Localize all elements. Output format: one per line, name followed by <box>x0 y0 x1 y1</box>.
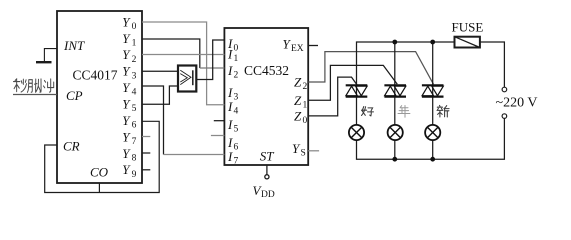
svg-text:CC4017: CC4017 <box>73 68 118 83</box>
svg-text:4: 4 <box>132 88 137 98</box>
svg-text:0: 0 <box>234 43 239 53</box>
svg-text:Y: Y <box>122 47 131 62</box>
svg-text:I: I <box>227 149 233 164</box>
svg-text:I: I <box>227 47 233 62</box>
svg-text:1: 1 <box>234 54 239 64</box>
svg-text:INT: INT <box>63 38 85 53</box>
svg-text:Y: Y <box>122 80 131 95</box>
svg-text:Z: Z <box>294 108 302 123</box>
svg-text:4: 4 <box>234 107 239 117</box>
svg-text:I: I <box>227 85 233 100</box>
svg-text:DD: DD <box>261 190 275 200</box>
svg-text:Y: Y <box>122 97 131 112</box>
svg-text:6: 6 <box>234 143 239 153</box>
svg-text:EX: EX <box>291 44 304 54</box>
svg-text:1: 1 <box>303 100 308 110</box>
svg-text:FUSE: FUSE <box>452 20 484 35</box>
svg-text:I: I <box>227 99 233 114</box>
svg-text:2: 2 <box>132 55 137 65</box>
svg-text:ST: ST <box>260 149 275 164</box>
svg-text:Y: Y <box>122 162 131 177</box>
svg-text:Y: Y <box>122 64 131 79</box>
svg-text:2: 2 <box>303 82 308 92</box>
svg-text:3: 3 <box>234 93 239 103</box>
svg-text:3: 3 <box>132 71 137 81</box>
svg-text:1: 1 <box>132 38 137 48</box>
svg-text:Y: Y <box>122 129 131 144</box>
svg-text:S: S <box>301 149 306 159</box>
svg-text:0: 0 <box>132 22 137 32</box>
svg-text:Y: Y <box>122 146 131 161</box>
svg-text:Y: Y <box>122 31 131 46</box>
svg-text:CC4532: CC4532 <box>244 63 289 78</box>
svg-text:~220 V: ~220 V <box>496 95 538 110</box>
svg-text:7: 7 <box>132 137 137 147</box>
svg-text:2: 2 <box>234 71 239 81</box>
svg-text:6: 6 <box>132 121 137 131</box>
svg-text:I: I <box>227 63 233 78</box>
svg-text:Y: Y <box>122 14 131 29</box>
svg-text:5: 5 <box>132 104 137 114</box>
svg-text:I: I <box>227 135 233 150</box>
svg-text:0: 0 <box>303 116 308 126</box>
svg-text:Y: Y <box>122 113 131 128</box>
svg-text:Z: Z <box>294 93 302 108</box>
svg-text:Z: Z <box>294 75 302 90</box>
svg-text:7: 7 <box>234 157 239 167</box>
svg-text:CP: CP <box>66 88 83 103</box>
svg-text:9: 9 <box>132 170 137 180</box>
svg-text:CO: CO <box>90 165 109 180</box>
svg-text:5: 5 <box>234 125 239 135</box>
svg-text:8: 8 <box>132 153 137 163</box>
svg-text:I: I <box>227 117 233 132</box>
svg-text:CR: CR <box>63 139 80 154</box>
